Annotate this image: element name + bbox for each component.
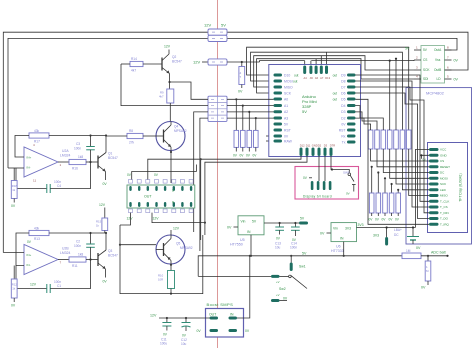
svg-text:0V: 0V [284,134,289,138]
transistor Q5 MPSA92 [156,227,193,271]
DS1 pads [429,148,439,226]
switch SW2 [271,287,288,302]
link block LK1-LK4 [208,96,227,121]
svg-text:RAW: RAW [284,140,293,144]
wire U2B feedback left [16,233,29,266]
svg-text:12V: 12V [193,60,200,65]
U4 out markers right [333,74,338,102]
svg-text:HT7333: HT7333 [331,249,344,253]
svg-text:RST: RST [284,128,291,132]
svg-text:R13: R13 [34,237,40,241]
resistor bank bottom R35 [395,189,401,222]
svg-text:100n: 100n [290,246,297,250]
svg-text:D3: D3 [324,144,328,148]
regulator U6 box [331,223,357,242]
svg-text:A1: A1 [284,104,288,108]
wire riser A5 [310,61,312,65]
fuse link F3 [208,59,227,65]
SMPS module PS1 box [206,309,244,338]
svg-text:out: out [294,74,299,78]
svg-text:5V: 5V [302,252,307,256]
resistor R9 [159,89,174,122]
wire riser A4 [304,61,306,65]
svg-text:A7: A7 [320,76,324,80]
wire from bottom pin D12 [201,156,301,240]
svg-text:T_CLK: T_CLK [440,200,449,204]
svg-text:Vin: Vin [333,227,338,231]
wire riser A7 [320,56,322,65]
capacitor C14 [290,222,300,250]
U4 bottom pin tiny labels [300,144,335,148]
resistor R14 base [121,57,162,72]
wire riser top pin5 [326,52,328,65]
svg-text:C2: C2 [76,240,80,244]
svg-text:5V: 5V [252,220,257,224]
svg-text:1k8: 1k8 [78,253,83,257]
svg-text:27k: 27k [129,141,135,145]
svg-text:OutB: OutB [434,68,441,72]
svg-text:SCK: SCK [440,182,446,186]
svg-text:LD: LD [437,77,442,81]
wire U1 pin to 12V loop [120,213,131,225]
wire 5V rail bottom [198,256,402,277]
svg-text:12V: 12V [99,203,106,207]
svg-text:ADC batt: ADC batt [431,251,446,255]
wire 12V out feed [150,314,210,319]
svg-text:out: out [293,80,298,84]
switch SW1 [271,255,307,289]
IC U4 Arduino Pro Mini box [269,65,361,157]
svg-text:Display b/l board: Display b/l board [303,195,332,199]
wire bus MISO [254,56,414,87]
svg-text:D12: D12 [300,144,305,148]
U3 pin names [423,48,442,81]
label bank values [369,136,410,141]
resistor bank top R25 [394,58,429,184]
svg-text:D3: D3 [341,110,345,114]
wire U2A top rail [49,135,106,137]
svg-text:MCP4802: MCP4802 [426,91,445,96]
svg-text:12V: 12V [153,217,160,221]
wire D3 pin into pink box [318,156,320,181]
svg-text:LM324: LM324 [60,154,70,158]
svg-text:0V: 0V [341,122,346,126]
svg-text:TFT Disp (ILI9341): TFT Disp (ILI9341) [459,173,463,201]
label U5 HT7550 [230,238,245,247]
wire U6 bottom to rail [343,242,345,257]
resistor RN A1 pulldown [240,105,246,158]
wire D8 to T_CS [356,81,430,207]
svg-text:R8: R8 [129,129,133,133]
ground 0V U5 [227,226,238,230]
wire 12V link right to RAW [227,61,260,63]
svg-text:IN+: IN+ [27,156,32,160]
svg-text:0V: 0V [245,329,250,333]
transistor Q4 MPSA42 [156,122,187,184]
U3 pin numbers [416,46,449,79]
U4 left pin labels [284,74,293,144]
svg-text:100u: 100u [160,342,167,346]
op-amp U2B triangle [24,245,58,275]
svg-text:0V: 0V [11,304,16,308]
resistor bank top R26 [400,130,429,190]
DS1 pin labels [440,148,450,227]
wire riser A6 [315,59,317,65]
svg-text:0V: 0V [103,280,108,284]
U2A labels [27,143,71,183]
svg-text:D13: D13 [325,76,330,80]
wire bus CS to DAC [260,61,305,62]
svg-text:D2: D2 [318,144,322,148]
wire A1 row [227,105,274,107]
PS1 pads and labels [197,313,250,334]
svg-text:3V3: 3V3 [345,227,351,231]
resistor R15 pullup 12V [96,203,108,233]
svg-text:C1: C1 [57,284,61,288]
svg-text:0V: 0V [238,90,243,94]
wire U1 bottom L [152,213,205,223]
svg-text:Boost SMPS: Boost SMPS [207,302,234,307]
resistor bank top R22 [356,112,430,167]
svg-text:Q4: Q4 [174,125,178,129]
resistor R10 emitter [158,271,175,295]
svg-text:D8: D8 [341,80,345,84]
svg-text:GND: GND [312,144,318,148]
wire U1 right verticals [132,172,197,180]
wire Q2 base net down [121,64,208,106]
wire D6 to T_DO [356,93,430,219]
node 3V3 pad [357,223,416,246]
wire A2 row [227,111,274,113]
svg-text:LED: LED [440,188,447,192]
svg-text:GND: GND [440,154,448,158]
U4 name text [302,94,317,114]
svg-text:43k: 43k [34,226,40,230]
svg-text:R14: R14 [131,57,137,61]
svg-text:12V: 12V [204,23,211,28]
resistor R13 feedback [29,226,49,241]
junction [119,244,121,246]
capacitor C1 feedback [16,260,91,294]
U2B labels [27,240,71,267]
junction [241,61,243,63]
wire D11 pin into pink box [324,156,326,181]
svg-text:OutA: OutA [434,48,442,52]
svg-text:MISO: MISO [284,86,293,90]
svg-text:4k7: 4k7 [131,69,136,73]
svg-text:SW5: SW5 [343,171,350,175]
svg-text:SCK: SCK [423,68,430,72]
wire net OutB top rail [3,32,468,252]
svg-text:out: out [333,74,338,78]
svg-text:MPSA92: MPSA92 [180,246,193,250]
svg-text:Vss: Vss [435,58,441,62]
wire A0 row [227,98,274,100]
resistor R8 base 27k [106,129,156,144]
svg-text:OUT: OUT [144,195,152,199]
svg-text:3V3: 3V3 [358,223,364,227]
svg-text:RST: RST [339,128,346,132]
svg-text:U2A: U2A [62,149,69,153]
wire A3 row [227,117,274,119]
svg-text:Sw1: Sw1 [299,265,306,269]
wire top pin into pink box [331,156,332,170]
wire D5 to T_IRQ [356,99,430,224]
svg-text:Sw2: Sw2 [279,287,286,291]
svg-text:R16: R16 [72,167,78,171]
svg-text:MPSA42: MPSA42 [174,129,187,133]
svg-text:10u: 10u [275,246,281,250]
svg-text:5V: 5V [405,47,410,51]
junction [200,158,202,160]
svg-text:CS: CS [440,159,444,163]
switch SW5 in pink box [331,168,356,195]
U4 right pin labels [339,74,347,145]
svg-text:43k: 43k [34,129,40,133]
svg-text:11: 11 [33,179,36,183]
resistor bank top R24 [387,60,429,179]
svg-text:MOSI: MOSI [284,80,293,84]
svg-text:0V: 0V [283,297,288,301]
svg-text:1k8: 1k8 [78,155,83,159]
display module DS1 ILI9341 box [428,143,468,233]
regulator U5 box [238,216,264,235]
svg-text:5V: 5V [302,109,307,114]
svg-text:IN: IN [230,313,234,317]
svg-text:VCC: VCC [440,148,447,152]
wire D4 to bank [355,103,357,105]
svg-text:12V: 12V [164,45,171,49]
svg-text:out: out [333,98,338,102]
svg-text:RESET: RESET [440,165,450,169]
wire link L3 vertical [194,112,208,232]
svg-text:IN: IN [340,237,344,241]
resistor bank bottom R31 [369,166,375,222]
module box display assembly [406,88,472,244]
pin stubs U3 right [445,50,452,79]
svg-text:DC: DC [394,233,399,237]
wire 12V bottom loop [120,225,203,294]
svg-text:A2: A2 [284,110,288,114]
svg-text:BC547: BC547 [108,156,118,160]
svg-text:R11: R11 [72,264,78,268]
svg-text:IN-: IN- [27,263,31,267]
U1 bottom pads [129,202,192,207]
wire bus SCK [257,59,414,93]
resistor bank top R23 [356,106,430,173]
capacitor C12 [181,317,191,346]
pin stubs U3 left [414,50,421,79]
resistor R18 to ground [11,168,17,208]
resistor R19 series ADC [402,249,449,259]
svg-text:+V: +V [276,280,280,284]
svg-text:Vin: Vin [241,220,246,224]
svg-text:10u: 10u [181,342,187,346]
svg-text:0V: 0V [11,204,16,208]
svg-text:D10: D10 [284,74,290,78]
wire Q5 base net [120,244,156,246]
resistor bank top R21 [356,118,430,161]
capacitor C2 [74,232,95,261]
svg-text:5V: 5V [221,23,226,28]
svg-text:100n: 100n [74,147,81,151]
U1 bottom pin boxes [129,209,194,213]
fuse link F2 5V [208,35,227,41]
wire link L4 vertical [200,118,208,251]
capacitor C3 [74,134,95,163]
svg-text:0V: 0V [227,226,232,230]
wire display VCC from 3V3 [415,150,429,228]
svg-text:LBA+: LBA+ [394,228,402,232]
U1 top pin boxes [129,180,194,184]
svg-text:BC547: BC547 [172,59,182,63]
capacitor C4 feedback [16,162,91,193]
svg-text:12V: 12V [30,283,37,287]
resistor RN A0 pulldown [233,98,239,157]
svg-text:U5: U5 [240,238,245,242]
U4 top pin tiny labels [304,76,331,80]
ground 0V U6 [320,232,331,236]
wire bus CS right segment [311,59,414,62]
resistor R11 [69,253,86,268]
svg-text:HT7550: HT7550 [230,243,243,247]
label bank2 values [370,199,400,204]
svg-text:12V: 12V [127,217,134,221]
page split line [217,0,219,348]
svg-text:0V: 0V [416,246,421,250]
svg-text:100n: 100n [74,244,81,248]
resistor R16 [69,155,86,170]
U4 out markers left [293,74,299,84]
fuse link F1 12V [208,29,227,35]
wire link L1 from Q2 emitter [170,82,209,99]
IC U1 OUT dip16 box [127,185,195,208]
node 5V pad output [299,217,308,225]
U1 top pads [129,186,192,191]
svg-text:Q5: Q5 [176,242,180,246]
svg-text:DTR: DTR [330,144,335,148]
svg-text:12V: 12V [150,314,157,318]
resistor R12 to ground [11,266,17,308]
svg-text:0V: 0V [346,192,350,196]
resistor bank bottom R34 [389,183,394,222]
svg-text:BC547: BC547 [108,253,118,257]
wire U2B output [58,259,69,261]
transistor Q2 BC547 top [162,45,182,90]
resistor R3 pulldown [239,62,245,88]
U4 right pads [347,74,356,144]
label 0V in pink box [303,176,312,180]
resistor RN A2 pulldown [246,111,252,158]
svg-text:D5: D5 [341,98,345,102]
resistor R17 feedback [29,129,49,144]
resistor R20 ADC lower [421,255,431,290]
wire U5 bottom to rail [250,235,252,257]
wire D7 to T_DIN [356,87,430,213]
svg-text:A0: A0 [284,98,288,102]
U4 top pads [303,66,328,75]
wire U2A output [58,161,69,163]
svg-text:D7: D7 [341,86,345,90]
svg-text:0V: 0V [197,329,202,333]
svg-text:4k7: 4k7 [159,95,164,99]
resistor bank bottom R32 [375,171,381,221]
svg-text:T_DIN: T_DIN [440,211,449,215]
svg-text:R17: R17 [34,140,40,144]
svg-text:0V: 0V [454,78,459,82]
resistor RN A3 pulldown [253,117,259,158]
wire chain to U1 pin [148,159,201,179]
svg-text:5V: 5V [300,217,305,221]
svg-text:OUT: OUT [209,313,216,317]
svg-text:10R: 10R [158,278,163,282]
svg-text:Tx: Tx [342,140,346,144]
svg-text:0V: 0V [421,286,426,290]
pink module display backlight board [295,167,359,200]
svg-text:MISO: MISO [440,194,448,198]
svg-text:A6: A6 [315,76,319,80]
wire U5 output [264,222,308,224]
resistor bank bottom R33 [382,177,388,221]
svg-text:0V: 0V [320,232,325,236]
wire bus MOSI [251,52,403,130]
svg-text:5V: 5V [284,122,289,126]
junction [204,222,206,224]
svg-text:SDI: SDI [423,77,428,81]
svg-text:0V: 0V [454,59,459,63]
wire 12V link left [202,61,208,63]
svg-text:U2B: U2B [62,247,69,251]
wire SMPS IN from rail [237,255,251,318]
wire D9 to T_CLK [356,75,430,201]
svg-text:3V3: 3V3 [373,234,379,238]
svg-text:D11: D11 [306,144,311,148]
svg-text:T_IRQ: T_IRQ [440,223,450,227]
svg-text:A3: A3 [284,116,288,120]
svg-text:U6: U6 [336,245,341,249]
U4 bottom pads [300,148,333,157]
svg-text:IN-: IN- [27,166,31,170]
wire U2A feedback left [15,136,29,158]
capacitor C11 [160,317,171,346]
svg-text:IN+: IN+ [27,253,32,257]
svg-text:D9: D9 [341,74,345,78]
op-amp U2A triangle [24,147,58,177]
svg-text:T_DO: T_DO [440,217,449,221]
svg-text:IN: IN [247,230,251,234]
battery LiPo [394,226,421,250]
resistor bank top R27 [406,130,429,196]
svg-text:D4: D4 [341,104,345,108]
svg-text:CS: CS [423,58,427,62]
svg-text:T_CS: T_CS [440,205,448,209]
wire switch common to rail leg [198,275,271,277]
svg-text:LM324: LM324 [60,251,70,255]
svg-text:A5: A5 [310,76,314,80]
wire R16 to Q1 [86,161,98,163]
U4 left pads [274,74,283,143]
transistor Q1 BC547 [98,134,118,186]
svg-text:12V: 12V [173,227,180,231]
svg-text:D2: D2 [341,116,345,120]
wire R11 to Q3 [86,259,98,261]
svg-text:1M: 1M [406,249,411,253]
svg-text:Rx: Rx [341,134,345,138]
backlight board pads [311,181,332,190]
wire U1 second top [196,165,198,172]
svg-text:C4: C4 [57,184,61,188]
svg-text:C3: C3 [76,142,80,146]
